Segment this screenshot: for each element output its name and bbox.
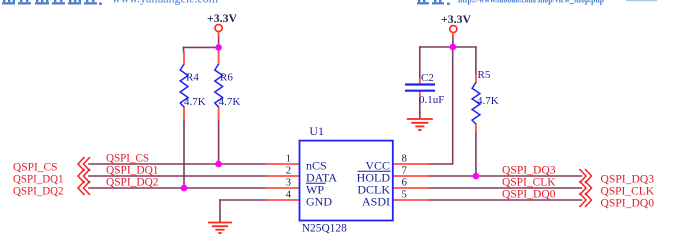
svg-text:5: 5 xyxy=(402,189,407,200)
svg-text:www.yahuangele.com: www.yahuangele.com xyxy=(112,0,218,6)
svg-text:C2: C2 xyxy=(421,72,434,84)
svg-text:QSPI_DQ2: QSPI_DQ2 xyxy=(13,184,64,198)
svg-text:4: 4 xyxy=(286,189,292,200)
svg-text:4.7K: 4.7K xyxy=(184,96,206,108)
svg-text:R5: R5 xyxy=(478,69,491,81)
svg-text:7: 7 xyxy=(402,165,407,176)
svg-text:R6: R6 xyxy=(220,72,233,84)
svg-text:N25Q128: N25Q128 xyxy=(302,221,347,235)
svg-text:+3.3V: +3.3V xyxy=(207,11,237,25)
svg-text:4.7K: 4.7K xyxy=(219,96,241,108)
svg-text:http://www.taobao.com/shop/vie: http://www.taobao.com/shop/view_shop.php xyxy=(458,0,604,6)
svg-text:0.1uF: 0.1uF xyxy=(419,94,444,106)
svg-text:8: 8 xyxy=(402,153,407,164)
svg-text:GND: GND xyxy=(306,195,332,209)
svg-text:1: 1 xyxy=(286,153,291,164)
svg-text:+3.3V: +3.3V xyxy=(441,12,471,26)
svg-text:3: 3 xyxy=(286,177,291,188)
svg-text:QSPI_DQ0: QSPI_DQ0 xyxy=(502,187,556,201)
svg-text:ASDI: ASDI xyxy=(362,195,390,209)
svg-text:4.7K: 4.7K xyxy=(477,95,499,107)
svg-text:2: 2 xyxy=(286,165,291,176)
svg-text:6: 6 xyxy=(402,177,407,188)
svg-text:R4: R4 xyxy=(186,72,199,84)
svg-text:QSPI_DQ2: QSPI_DQ2 xyxy=(106,175,159,189)
svg-text:U1: U1 xyxy=(309,124,324,138)
svg-text:QSPI_DQ0: QSPI_DQ0 xyxy=(601,196,655,210)
